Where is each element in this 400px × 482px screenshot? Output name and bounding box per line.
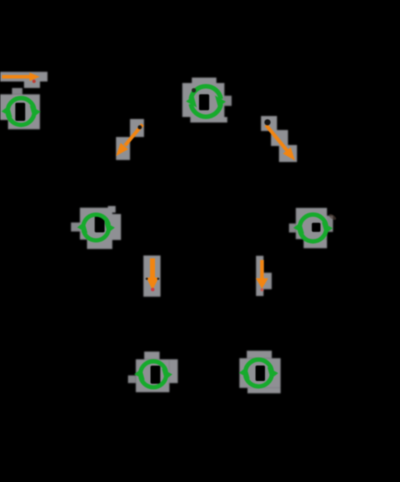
grey halo: ring F bottom-right [247,351,272,359]
orange horizontal arrow top-left [2,73,40,83]
orange vertical arrow left (points down) [146,258,160,291]
glyph E (Cl) [151,366,161,384]
grey halo: diagonal arrow right [261,116,277,131]
ring D right-middle [293,215,332,242]
grey halo: ring D right-middle [296,208,327,239]
grey halo: diagonal arrow left [130,119,144,137]
orange diagonal arrow right (points down-right) [264,119,295,160]
grey halo: horizontal arrow top-left [0,72,48,82]
glyph C (Cl) [95,215,105,232]
ring A top-left [1,98,40,125]
orange vertical arrow right (points down) [256,260,268,291]
grey halo: ring C left-middle [80,208,112,240]
glyph F (Cl) [256,366,266,382]
grey halo: ring B top-center [192,78,217,84]
glyph A (Cl) [15,103,25,121]
grey halo: vertical arrow right [256,256,264,296]
orange diagonal arrow left (points down-left) [116,125,143,157]
ring E bottom-left [134,361,172,387]
grey halo: vertical arrow left [143,256,160,297]
ring F bottom-right [239,360,278,387]
grey halo: ring A top-left [0,94,40,120]
dark spot near ring B [192,88,196,92]
grey halo: ring E bottom-left [144,352,159,360]
smudge near ring D [328,213,337,221]
glyph D (Cl) [312,223,321,232]
ring C left-middle [77,215,115,241]
glyph B (Cl) [199,94,209,110]
ring B top-center [186,86,226,116]
